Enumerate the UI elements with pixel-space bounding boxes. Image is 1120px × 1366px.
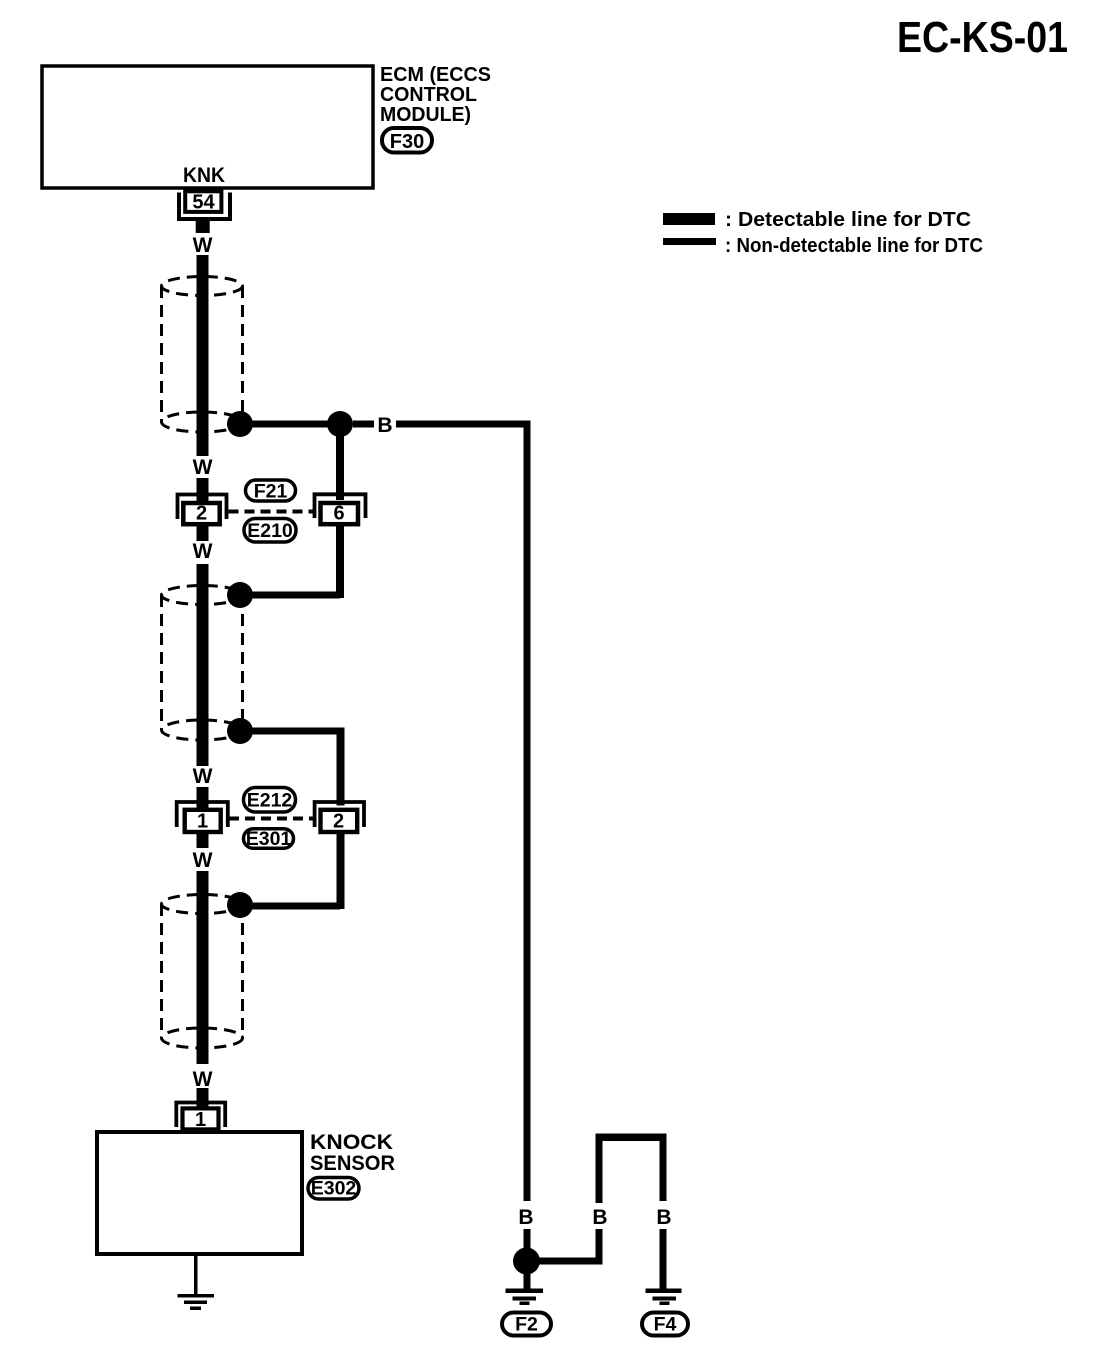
wire junction F to ground F2 bbox=[524, 1267, 531, 1289]
wire connector F21-6 down to corner bbox=[336, 525, 344, 598]
knock sensor connector pin 1 box bbox=[183, 1108, 219, 1129]
connector dashed mating line F21/E210 bbox=[229, 510, 314, 514]
wire corner to shield2 top drain bbox=[240, 592, 340, 599]
svg-text:W: W bbox=[193, 849, 213, 872]
wire B main vertical down bbox=[524, 421, 531, 1202]
svg-text:F21: F21 bbox=[254, 481, 288, 503]
svg-text:6: 6 bbox=[333, 503, 344, 525]
connector F21/E210 pin 2 box bbox=[183, 503, 219, 524]
wire W below connector E212-1 bbox=[197, 834, 209, 848]
wire knock sensor to ground bbox=[194, 1254, 198, 1295]
svg-text:B: B bbox=[518, 1206, 533, 1229]
knock sensor connector pin 1 bracket bbox=[176, 1103, 225, 1128]
connector pin 54 box bbox=[185, 191, 221, 212]
wire B stub above junction F bbox=[524, 1229, 531, 1249]
svg-text:EC-KS-01: EC-KS-01 bbox=[897, 13, 1068, 62]
connector F21/E210 pin 6 bracket bbox=[315, 494, 366, 518]
svg-text:E210: E210 bbox=[247, 520, 293, 542]
svg-text:2: 2 bbox=[196, 503, 207, 525]
wire shield1 drain to node B bbox=[240, 421, 340, 428]
connector E212/E301 pin 2 box bbox=[321, 810, 358, 832]
connector E212/E301 pin 1 box bbox=[185, 810, 221, 832]
connector dashed mating line E212/E301 bbox=[229, 817, 313, 821]
wire B horizontal to corner bbox=[396, 421, 530, 428]
svg-text:54: 54 bbox=[192, 192, 215, 214]
svg-text:W: W bbox=[193, 1068, 213, 1091]
junction dot D shield2 bottom bbox=[227, 718, 253, 744]
svg-text:B: B bbox=[656, 1206, 671, 1229]
svg-text:2: 2 bbox=[333, 811, 344, 833]
svg-text:B: B bbox=[592, 1206, 607, 1229]
svg-text:F2: F2 bbox=[515, 1314, 538, 1336]
connector F21/E210 pin 6 box bbox=[321, 503, 359, 524]
ground symbol knock sensor bbox=[178, 1294, 215, 1310]
wire W pin54 stub bbox=[196, 220, 210, 233]
knock sensor box bbox=[97, 1132, 302, 1254]
svg-text:E301: E301 bbox=[246, 828, 292, 850]
wire W through shield 3 bbox=[197, 871, 209, 1064]
ground symbol F2 bbox=[506, 1289, 544, 1306]
wire node B down to connector F21-6 bbox=[336, 424, 344, 500]
junction dot C shield2 top bbox=[227, 582, 253, 608]
svg-text:SENSOR: SENSOR bbox=[310, 1152, 395, 1175]
wire W into connector E212-1 bbox=[197, 787, 209, 808]
shield cylinder 1 bbox=[162, 277, 243, 433]
connector F21/E210 pin 2 bracket bbox=[178, 495, 227, 520]
svg-text:E302: E302 bbox=[311, 1178, 357, 1200]
connector oval E212 bbox=[244, 788, 296, 813]
svg-text:B: B bbox=[377, 414, 392, 437]
svg-text:W: W bbox=[193, 456, 213, 479]
ECM box bbox=[42, 66, 373, 188]
wire W through shield 1 bbox=[197, 255, 209, 456]
svg-text:F30: F30 bbox=[390, 131, 424, 153]
svg-text:MODULE): MODULE) bbox=[380, 103, 471, 126]
svg-text:W: W bbox=[193, 234, 213, 257]
legend non-detectable line bar bbox=[663, 238, 716, 245]
wire W redraw over shields bbox=[197, 255, 209, 456]
junction dot E shield3 top bbox=[227, 892, 253, 918]
connector oval F21 bbox=[246, 480, 296, 501]
wire connector E212-2 down to corner bbox=[337, 834, 345, 909]
svg-text:KNOCK: KNOCK bbox=[310, 1131, 393, 1154]
wire W through shield 2 bbox=[197, 564, 209, 766]
junction dot F bbox=[513, 1248, 540, 1275]
shield cylinder 2 bbox=[162, 586, 243, 741]
wire right vertical to ground F4 bbox=[660, 1229, 667, 1289]
wire junction F to middle branch bbox=[526, 1258, 599, 1265]
connector E212/E301 pin 1 bracket bbox=[177, 802, 228, 827]
svg-text:F4: F4 bbox=[654, 1314, 677, 1336]
wire W into connector F21-2 bbox=[197, 478, 209, 504]
ground connector oval F4 bbox=[642, 1313, 688, 1336]
wire node B short dash before label bbox=[353, 421, 374, 428]
ground symbol F4 bbox=[646, 1289, 682, 1306]
svg-text:E212: E212 bbox=[247, 790, 293, 812]
svg-text:W: W bbox=[193, 540, 213, 563]
wire right vertical down bbox=[660, 1134, 667, 1202]
junction dot A shield1 drain bbox=[227, 411, 253, 437]
wire corner to shield3 top drain bbox=[240, 903, 340, 910]
svg-text:KNK: KNK bbox=[183, 164, 225, 187]
junction dot B bbox=[327, 411, 353, 437]
wire W into knock sensor connector bbox=[197, 1088, 209, 1107]
svg-text:1: 1 bbox=[197, 811, 208, 833]
svg-text:: Detectable line for DTC: : Detectable line for DTC bbox=[725, 209, 971, 231]
wire middle vertical below label bbox=[596, 1229, 603, 1265]
connector E212/E301 pin 2 bracket bbox=[315, 802, 364, 827]
wire corner down to connector E212-2 bbox=[337, 728, 345, 806]
ground connector oval F2 bbox=[502, 1313, 551, 1336]
connector pin 54 bracket bbox=[179, 193, 230, 220]
wire W below connector F21-2 bbox=[197, 526, 209, 541]
svg-text:W: W bbox=[193, 765, 213, 788]
connector oval E302 bbox=[308, 1178, 359, 1200]
connector oval F30 bbox=[382, 128, 432, 153]
wire staple top horizontal bbox=[596, 1134, 667, 1142]
wire middle vertical up bbox=[596, 1137, 603, 1203]
connector oval E210 bbox=[244, 519, 296, 543]
shield cylinder 3 bbox=[162, 895, 243, 1049]
svg-text:1: 1 bbox=[195, 1109, 206, 1131]
legend detectable line bar bbox=[663, 213, 715, 225]
svg-text:: Non-detectable line for DTC: : Non-detectable line for DTC bbox=[725, 235, 983, 257]
wire shield2 bottom drain to corner bbox=[240, 728, 340, 735]
connector oval E301 bbox=[244, 829, 294, 849]
